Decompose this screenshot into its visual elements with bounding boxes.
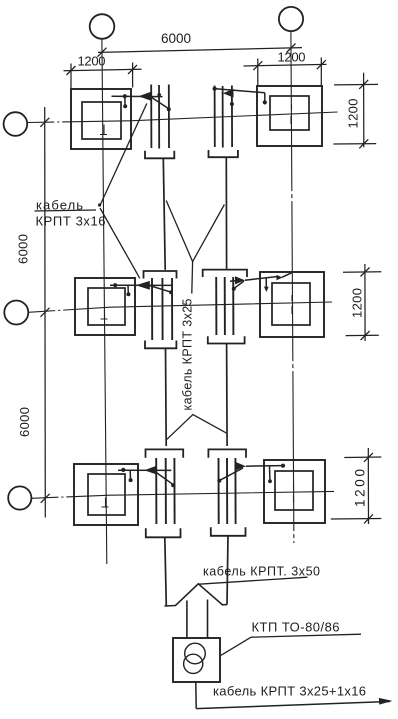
label shelf line	[35, 210, 97, 211]
dimension 1200 right row2	[343, 264, 381, 341]
feeder block arrow	[165, 584, 228, 638]
dimension 1200 top-left	[64, 63, 142, 90]
cable drop A1 row1-left	[112, 92, 171, 111]
svg-text:6000: 6000	[161, 31, 191, 46]
wire riser B row1 to row2	[225, 157, 227, 269]
column K5 center mark	[102, 498, 109, 508]
riser B3 bottom sleeve bracket	[211, 527, 246, 536]
dimension 1200 right row3	[331, 448, 382, 524]
svg-text:6000: 6000	[17, 407, 32, 437]
transformer circle upper	[185, 643, 206, 664]
label underline leader	[199, 577, 308, 584]
cable drop B3 row3-right	[217, 462, 285, 483]
column K6 row3-right outer	[264, 460, 325, 523]
riser B2 bottom sleeve bracket	[208, 336, 245, 343]
axis circle row2 left	[4, 301, 28, 325]
wire riser A row2 to row3	[165, 348, 168, 446]
cable drop A2 row2-left	[110, 281, 173, 296]
column axis line left vertical	[102, 39, 107, 564]
KTP label underline	[251, 634, 361, 637]
cable riser group B row1	[215, 86, 233, 148]
wire riser A row1 to row2	[163, 158, 165, 269]
leader V lower to both risers	[166, 415, 227, 441]
column K4 row2-right outer	[260, 272, 324, 337]
leader V upper to both risers	[166, 201, 224, 262]
column K1 center mark	[100, 125, 107, 135]
leader to row1 drop	[100, 104, 147, 207]
column K5 row3-left outer	[74, 464, 138, 525]
cable riser group A row1	[151, 85, 169, 149]
row2 axis line horizontal	[28, 302, 332, 312]
svg-text:1200: 1200	[346, 99, 361, 129]
column K1 row1-left outer	[71, 89, 131, 149]
riser B1 bottom sleeve bracket	[209, 150, 238, 157]
column axis line right vertical	[291, 31, 294, 543]
dimension 6000 left vertical line	[40, 107, 49, 518]
cable riser group A row2	[152, 278, 172, 340]
cable riser group B row3	[219, 458, 236, 524]
row1 axis line horizontal	[27, 112, 337, 123]
column K2 center mark	[290, 104, 293, 124]
KTP leader diagonal	[221, 637, 251, 655]
column K2 inner	[270, 96, 309, 130]
cable drop B1 row1-right	[213, 87, 267, 106]
riser A3 bottom sleeve bracket	[146, 528, 181, 537]
axis circle top-right	[279, 7, 303, 31]
wire riser B row2 to row3	[226, 344, 229, 447]
svg-text:1200: 1200	[278, 50, 306, 65]
column K6 inner	[275, 471, 313, 510]
cable riser group A row3	[156, 458, 174, 524]
dimension 1200 top-right	[244, 58, 327, 87]
cable drop B2 row2-right	[230, 272, 292, 292]
column K5 inner	[88, 474, 125, 515]
wire riser A row3 to feeder arrow	[165, 537, 167, 606]
column K4 center mark	[291, 295, 293, 314]
column K3 inner	[88, 288, 125, 325]
column K4 inner	[272, 283, 310, 325]
svg-text:КТП ТО-80/86: КТП ТО-80/86	[252, 620, 340, 635]
feeder arrowhead	[379, 698, 393, 705]
svg-text:кабель КРПТ 3х25+1х16: кабель КРПТ 3х25+1х16	[213, 684, 366, 699]
riser A2 top sleeve bracket	[144, 271, 177, 279]
svg-text:1200: 1200	[78, 54, 106, 69]
column K6 center mark	[293, 484, 295, 503]
column K3 row2-left outer	[75, 278, 135, 335]
column K1 inner	[82, 102, 121, 139]
KTP box	[173, 638, 220, 682]
dimension 6000 top	[98, 44, 303, 57]
svg-text:КРПТ 3х16: КРПТ 3х16	[36, 213, 106, 228]
svg-text:1200: 1200	[353, 469, 368, 507]
riser B3 top sleeve bracket	[208, 449, 246, 457]
axis circle top-left	[90, 14, 115, 39]
axis circle row3 left	[8, 486, 31, 509]
riser A1 bottom sleeve bracket	[145, 151, 174, 159]
leader to row2 drop	[100, 208, 140, 278]
svg-text:кабель КРПТ 3х25: кабель КРПТ 3х25	[181, 298, 195, 410]
column K3 center mark	[101, 310, 108, 320]
riser A3 top sleeve bracket	[146, 449, 184, 457]
riser B2 top sleeve bracket	[203, 270, 247, 277]
column K2 row1-right outer	[257, 86, 322, 146]
axis circle row1 left	[4, 112, 28, 136]
svg-text:1200: 1200	[350, 288, 365, 318]
row3 axis line horizontal	[31, 491, 334, 498]
wire KTP bottom feeder	[195, 682, 197, 709]
wire riser B row3 to feeder arrow	[227, 536, 228, 605]
cable drop A3 row3-left	[118, 466, 175, 487]
svg-text:6000: 6000	[16, 234, 31, 264]
transformer circle lower	[184, 654, 203, 673]
riser A2 bottom sleeve bracket	[145, 341, 176, 349]
svg-text:кабель КРПТ. 3х50: кабель КРПТ. 3х50	[203, 565, 320, 579]
cable riser group B row2	[216, 277, 233, 335]
dimension 1200 right row1	[333, 73, 378, 149]
